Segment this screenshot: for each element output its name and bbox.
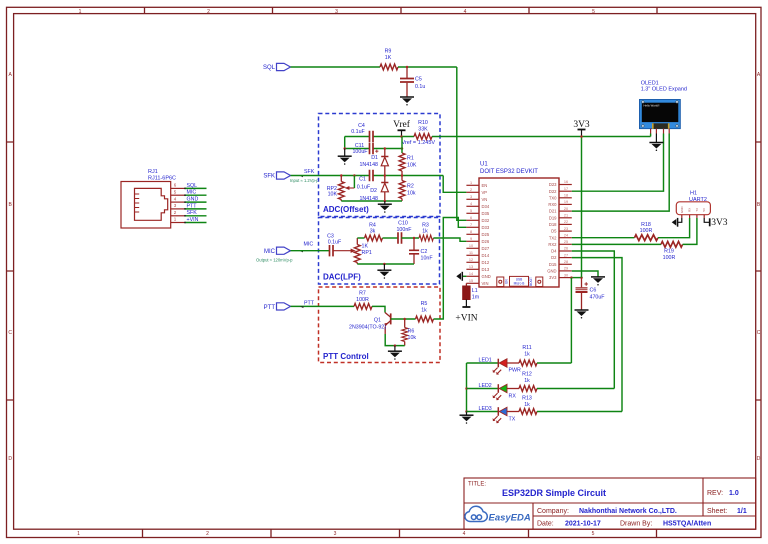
U1 pin 17 D22 [549,187,572,194]
ground at UART pin1 (sideways) [672,218,682,227]
resistor R10 33K [414,120,432,139]
UART header H1 UART2 [676,191,710,219]
junction ADC gnd [384,200,387,203]
transistor Q1 2N3904(TO-92) [349,313,391,335]
svg-text:VN: VN [482,197,488,202]
RJ1 pin 6 [171,183,185,189]
junction DAC gnd [383,263,386,266]
svg-text:H1: H1 [690,191,697,197]
svg-text:Output ≈ 120mVp-p: Output ≈ 120mVp-p [256,257,293,262]
svg-text:R5: R5 [421,301,428,307]
svg-text:D13: D13 [482,267,490,272]
RJ1 pin 2 [171,210,185,216]
resistor R2 10k vertical [399,176,416,202]
svg-text:22: 22 [564,220,568,224]
svg-text:15: 15 [469,279,473,283]
wire ADC bottom row [341,200,402,202]
U1 pin 6 D32 [466,216,489,223]
potentiometer RP2 10K [327,176,355,202]
wire U1 pin17 D22 to OLED SDA [572,134,664,192]
wire PTT port to R7 [291,305,355,307]
svg-text:D21: D21 [549,209,557,214]
svg-text:C: C [8,330,12,336]
U1 pin 28 D15 [549,260,572,267]
U1 EN button [497,277,504,287]
svg-text:R12: R12 [522,372,532,378]
svg-text:10: 10 [469,244,473,248]
connector RJ1 RJ11-6P6C [121,169,176,228]
LED3 TX (blue) [467,406,520,423]
LED1 PWR (red) [467,357,522,374]
wire RP1 top to R4 [357,237,364,239]
svg-text:R11: R11 [522,345,531,351]
svg-text:SFK: SFK [263,174,275,180]
junction D2 top [384,174,387,177]
svg-text:ADC(Offset): ADC(Offset) [323,205,369,214]
svg-text:18: 18 [564,194,568,198]
svg-text:D2: D2 [370,188,377,194]
svg-text:21: 21 [564,213,568,217]
port SQL [263,63,291,71]
junction PTT gnd [394,344,397,347]
svg-text:3V3: 3V3 [549,275,557,280]
diode D2 1N4148 [359,176,388,202]
wire OLED pin1 VCC [650,134,652,137]
svg-text:1.0: 1.0 [729,490,739,497]
svg-text:VP: VP [482,190,488,195]
wire C11 row [345,148,402,150]
wire Q1 emitter to gnd row [385,334,405,346]
svg-text:PTT: PTT [264,305,276,311]
wire R7 to Q1 collector [372,306,385,312]
wire R12 to D4 column [537,388,614,390]
svg-text:1k: 1k [422,229,428,235]
svg-text:+VIN: +VIN [187,217,199,223]
wire R3 to U1 pin9 D26 [433,238,466,241]
ESP32 module U1 DOIT ESP32 DEVKIT [479,162,559,288]
svg-text:2N3904(TO-92): 2N3904(TO-92) [349,324,386,330]
EasyEDA logo [465,506,487,521]
junction RP2 wiper [353,174,356,177]
svg-text:MIC: MIC [187,190,197,196]
port MIC [256,241,313,262]
net label anchor dot PTT [300,306,303,308]
U1 pin 10 D27 [466,244,489,251]
svg-text:RX: RX [687,208,691,212]
net flag +VIN [455,307,477,324]
capacitor C6 470uF [576,278,606,310]
svg-text:PWR: PWR [509,368,522,374]
port PTT [264,301,315,311]
svg-text:1.3" OLED Expand: 1.3" OLED Expand [641,87,687,93]
svg-text:4: 4 [463,531,466,537]
svg-text:10K: 10K [407,163,417,169]
svg-text:13: 13 [469,265,473,269]
wire net SFK at RJ1 pin2 [184,210,206,217]
svg-text:24: 24 [564,233,568,237]
resistor R4 3k [365,222,383,241]
junction D1 top [384,147,387,150]
svg-text:SFK: SFK [304,169,315,175]
svg-text:2021-10-17: 2021-10-17 [565,521,601,528]
svg-text:14: 14 [469,272,473,276]
U1 pin 25 RX2 [548,240,571,247]
wire SQL vertical down to U1 pin6 D32 [457,67,467,220]
wire net GND at RJ1 pin4 [184,197,206,204]
resistor R9 1K [380,49,398,70]
U1 pin 19 RX0 [548,200,571,207]
junction R6 top [403,318,406,321]
svg-text:1k: 1k [524,402,530,408]
svg-text:Vref: Vref [393,119,411,130]
RJ1 pin 4 [171,196,185,202]
ground ADC bottom [378,201,392,213]
svg-text:4: 4 [470,202,472,206]
diode D1 1N4148 [359,149,388,176]
svg-text:D15: D15 [549,262,557,267]
svg-text:12: 12 [469,258,473,262]
svg-text:Vref = 1.245V: Vref = 1.245V [402,140,436,146]
wire R5 up and over to U1 pin7 D33 [434,218,467,320]
svg-text:100R: 100R [356,297,369,303]
svg-text:D1: D1 [371,155,378,161]
U1 pin 27 D2 [551,253,572,260]
capacitor C2 10nF [409,238,433,264]
junction R1 top row2 [401,147,404,150]
svg-text:R1: R1 [407,156,414,162]
svg-text:TX: TX [695,208,699,212]
svg-text:R4: R4 [369,222,376,228]
U1 pin 16 D23 [549,180,572,187]
svg-text:D34: D34 [482,204,490,209]
U1 BOOT button [536,277,543,287]
U1 USB Micro B [510,276,529,286]
ground PTT [388,346,402,360]
ground at U1 pin14 GND (left, sideways) [456,272,466,281]
resistor R13 1k [519,396,537,415]
ground below C5 [400,97,414,106]
svg-text:ESP32DR Simple Circuit: ESP32DR Simple Circuit [502,488,606,498]
svg-text:R7: R7 [359,291,366,297]
wire R13 to D2 column [537,411,622,413]
svg-text:C10: C10 [398,221,408,227]
capacitor C1 0.1uF [357,170,373,191]
svg-text:3: 3 [335,9,338,15]
svg-text:4: 4 [464,9,467,15]
U1 pin 4 D34 [466,202,489,209]
svg-text:R9: R9 [385,49,392,55]
U1 pin 21 D19 [549,213,572,220]
svg-text:D22: D22 [549,189,557,194]
wire C10 to R3 [402,237,420,239]
net flag Vref [393,119,411,137]
svg-text:23: 23 [564,227,568,231]
svg-text:OLED1: OLED1 [641,80,659,86]
svg-text:29: 29 [564,267,568,271]
svg-text:Sheet:: Sheet: [707,508,727,515]
resistor R6 10k vertical [402,319,417,346]
wire U1 pin24 TX2 to R18 [572,237,635,239]
wire R1 to mid row [401,171,403,176]
wire SQL port to R9 [291,66,381,68]
svg-text:100R: 100R [640,228,653,234]
svg-text:TX: TX [509,417,516,423]
U1 pin 15 VIN [466,279,488,286]
svg-text:R19: R19 [664,248,674,254]
svg-text:D: D [8,456,12,462]
svg-text:MIC: MIC [264,249,276,255]
resistor R1 10K vertical [399,153,417,171]
svg-text:C11: C11 [355,143,364,149]
capacitor C11 100uF [352,143,378,155]
ground OLED pin2 [649,134,663,152]
svg-text:RX0: RX0 [548,202,557,207]
svg-text:RJ1: RJ1 [148,169,158,175]
ground below C6 [575,310,589,319]
svg-text:U1: U1 [480,162,488,168]
svg-text:D12: D12 [482,260,490,265]
svg-text:TITLE:: TITLE: [468,482,486,488]
U1 pin 11 D14 [466,251,489,258]
junction at C5 tap [406,66,409,69]
U1 pin 1 EN [466,181,487,188]
svg-text:DOIT ESP32 DEVKIT: DOIT ESP32 DEVKIT [480,169,538,175]
svg-text:2: 2 [206,531,209,537]
svg-text:1k: 1k [524,378,530,384]
capacitor C10 100nF [396,221,412,244]
svg-text:C5: C5 [415,77,422,83]
U1 pin 5 D35 [466,209,489,216]
svg-text:16: 16 [564,180,568,184]
svg-text:10k: 10k [407,191,416,197]
resistor R19 100R [661,241,683,260]
svg-text:Input ≈ 1.2Vp-p: Input ≈ 1.2Vp-p [290,178,319,183]
svg-text:R3: R3 [422,222,429,228]
svg-text:1N4148: 1N4148 [359,162,378,168]
svg-text:C2: C2 [421,249,428,255]
resistor R7 100R [354,291,372,310]
svg-text:TX0: TX0 [549,195,557,200]
RJ1 pin 1 [171,217,185,223]
svg-text:0.1uF: 0.1uF [351,129,365,135]
svg-text:27: 27 [564,253,568,257]
wire U1 pin20 D21 to OLED SCL [572,134,669,212]
U1 pin 26 D4 [551,247,572,254]
svg-text:C1: C1 [359,177,366,183]
resistor R12 1k [519,372,537,392]
U1 pin 20 D21 [549,207,572,214]
svg-text:EN: EN [505,279,509,284]
junction Vref stem [400,135,403,138]
wire U1 pin25 RX2 to R19 [572,243,661,245]
svg-text:5: 5 [592,9,595,15]
U1 pin 9 D26 [466,237,489,244]
svg-text:1: 1 [470,181,472,185]
svg-text:R6: R6 [408,329,415,335]
wire net MIC at RJ1 pin5 [184,190,206,197]
svg-text:3: 3 [334,531,337,537]
svg-text:PTT Control: PTT Control [323,352,369,361]
svg-text:+VIN: +VIN [455,314,477,324]
svg-text:TX2: TX2 [549,235,557,240]
svg-text:LED3: LED3 [479,406,492,412]
svg-text:EN: EN [482,183,488,188]
svg-text:LED1: LED1 [479,357,492,363]
svg-text:28: 28 [564,260,568,264]
junction RP2 top [340,174,343,177]
svg-text:C4: C4 [358,123,365,129]
wire vertical Vref to R1 [401,137,403,154]
svg-text:D33: D33 [482,225,490,230]
svg-text:R10: R10 [418,120,428,126]
wire Vref row [345,136,414,138]
svg-text:Company:: Company: [537,508,569,515]
dashed box PTT Control [319,287,441,363]
junction R2 top [401,174,404,177]
svg-text:D19: D19 [549,215,557,220]
svg-text:3V3: 3V3 [711,218,728,228]
resistor R5 1k [416,301,434,322]
svg-text:GND: GND [482,274,491,279]
wire 3V3 vertical (flag to U1 pin30) [581,137,583,278]
wire R11 to 3V3 rail [537,362,571,364]
svg-text:2: 2 [207,9,210,15]
U1 pin 3 VN [466,195,487,202]
port SFK [263,169,319,183]
wire SFK row through ADC [291,176,467,193]
wire C3 to RP1 wiper with arrow [333,249,356,253]
svg-text:1/1: 1/1 [737,508,747,515]
capacitor C3 0.1uF [327,234,342,257]
svg-text:VIN: VIN [482,281,489,286]
svg-text:33K: 33K [418,127,428,133]
svg-text:17: 17 [564,187,568,191]
svg-text:20: 20 [564,207,568,211]
ground DAC [377,264,391,279]
potentiometer RP1 1K [354,238,371,264]
RJ1 pin 3 [171,203,185,209]
wire DAC bottom row [357,263,414,265]
svg-text:5: 5 [470,209,472,213]
svg-text:0.1uF: 0.1uF [357,185,371,191]
svg-text:3V3: 3V3 [573,120,590,130]
U1 pin 12 D12 [466,258,489,265]
capacitor C4 0.1uF [351,123,373,142]
svg-text:R13: R13 [522,396,532,402]
svg-text:5: 5 [592,531,595,537]
svg-text:D: D [757,456,761,462]
U1 pin 29 GND [547,267,572,274]
inductor L1 1m at U1 pin15 VIN [463,283,480,307]
svg-text:D23: D23 [549,182,557,187]
svg-text:SQL: SQL [187,183,198,189]
OLED module OLED1 1.3" OLED Expand [640,80,687,133]
wire net PTT at RJ1 pin3 [184,203,206,210]
svg-text:1: 1 [77,531,80,537]
svg-text:Hello World!!: Hello World!! [644,103,660,107]
wire U1 pin30 3V3 row [572,277,582,279]
svg-text:30: 30 [564,273,568,277]
svg-text:1m: 1m [472,295,480,301]
svg-text:RX2: RX2 [548,242,557,247]
wire net SQL at RJ1 pin6 [184,183,206,190]
wire R9 to SQL vertical [398,66,457,68]
resistor R11 1k [519,345,537,366]
U1 pin 18 TX0 [549,194,572,201]
wire left vertical Vref to gnd row [344,137,346,149]
U1 pin 22 D18 [549,220,572,227]
wire R4 to C10 [383,237,399,239]
wire R19 to UART pin3 [683,218,697,244]
RJ1 pin 5 [171,189,185,195]
U1 pin 14 GND [466,272,490,279]
resistor R3 1k [419,222,433,241]
svg-text:1k: 1k [524,352,530,358]
svg-text:D35: D35 [482,211,490,216]
svg-text:D2: D2 [551,255,557,260]
svg-text:SQL: SQL [263,65,276,71]
svg-text:Micro B: Micro B [514,281,525,285]
U1 pin 2 VP [466,188,487,195]
junction C2 tap [413,237,416,240]
svg-text:D32: D32 [482,218,490,223]
svg-text:0.1uF: 0.1uF [328,240,342,246]
svg-text:PTT: PTT [187,203,198,209]
wire Q1 base to R5 [391,318,416,320]
svg-text:1: 1 [79,9,82,15]
svg-text:SFK: SFK [187,210,198,216]
svg-text:D25: D25 [482,232,490,237]
U1 pin 13 D13 [466,265,489,272]
wire LED left rail [466,363,468,412]
U1 pin 8 D25 [466,230,489,237]
dashed box ADC(Offset) [319,114,441,217]
junction LED supply column [570,276,573,279]
svg-text:5V: 5V [702,208,706,212]
wire U1 pin26 D4 to LED2 column [572,251,615,389]
wire R18 to UART pin2 [658,218,690,238]
svg-text:D5: D5 [551,229,557,234]
U1 pin 7 D33 [466,223,489,230]
ground left of ADC [338,149,352,165]
wire U1 pin27 D2 to LED3 column [572,258,622,412]
svg-text:3: 3 [470,195,472,199]
svg-text:100R: 100R [663,255,676,261]
svg-text:BOOT: BOOT [529,277,533,286]
junction 3V3/C6 [580,276,583,279]
svg-text:RJ11-6P6C: RJ11-6P6C [148,176,176,182]
svg-text:D18: D18 [549,222,557,227]
svg-text:10K: 10K [328,192,338,198]
svg-text:DAC(LPF): DAC(LPF) [323,273,361,282]
svg-text:L1: L1 [472,288,478,294]
svg-text:MIC: MIC [304,241,314,247]
svg-text:1K: 1K [362,244,369,250]
svg-text:8: 8 [470,230,472,234]
capacitor C5 0.1u [400,67,425,97]
svg-text:7: 7 [470,223,472,227]
svg-text:26: 26 [564,247,568,251]
LED2 RX (green) [467,383,520,400]
U1 pin 23 D5 [551,227,572,234]
svg-text:R2: R2 [407,184,414,190]
svg-text:19: 19 [564,200,568,204]
svg-text:GND: GND [680,206,684,214]
svg-text:REV:: REV: [707,490,723,497]
svg-text:LED2: LED2 [479,383,492,389]
svg-text:100uF: 100uF [352,149,368,155]
svg-text:10k: 10k [408,335,417,341]
